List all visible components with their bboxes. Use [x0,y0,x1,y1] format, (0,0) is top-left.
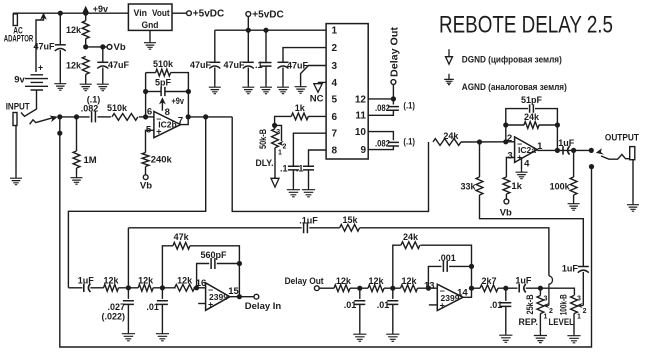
ground 12k lower [80,81,92,91]
label .1 pin8 [296,163,304,173]
wire divider to Vb terminal [86,46,108,48]
svg-text:8: 8 [165,107,170,118]
label 24k input [443,131,459,141]
label 33k [460,181,476,191]
label .01 Rb [377,300,390,310]
capacitor 47uF rail B [243,62,254,68]
capacitor .1 rail [261,63,272,67]
wire rail to 47uF1 [59,13,61,45]
svg-text:.1: .1 [280,163,288,173]
svg-text:.001: .001 [438,253,456,263]
DLY pot terminal 3 [276,129,280,136]
svg-text:12k: 12k [177,276,193,286]
label 47uF4 [223,60,245,70]
wire delayout to 12k [319,287,334,289]
label .1 pin7 [280,163,288,173]
capacitor .1 pin7 [288,166,299,170]
svg-text:1k: 1k [511,181,522,192]
ground pin4 DGND [314,83,322,93]
label (.022) [101,312,125,322]
svg-text:2: 2 [583,308,587,315]
svg-text:3: 3 [543,295,547,302]
IC2b pin 8 [165,107,170,118]
svg-text:25k-B: 25k-B [525,294,535,314]
svg-text:1uF: 1uF [78,276,95,286]
label 1uF output [558,138,575,148]
svg-text:DLY.: DLY. [256,158,274,169]
ground cap pin7 [287,187,300,197]
svg-text:Delay Out: Delay Out [388,26,400,77]
svg-text:IC2b: IC2b [158,119,176,129]
svg-text:+9v: +9v [93,4,108,14]
label 1uF delay in [78,276,95,286]
svg-text:1uF: 1uF [562,264,579,274]
label 1k delay [295,103,306,113]
wire pin4 stub [318,81,326,83]
svg-text:2k7: 2k7 [481,276,496,286]
label .01 L [146,302,159,312]
IC2b minus sign [156,113,161,123]
svg-text:+9v: +9v [172,96,185,106]
ground 47uF5 [277,84,289,94]
svg-text:24k: 24k [524,112,540,122]
wire 2399R plus stub [429,304,437,306]
wire cap082b to pin9 [368,146,393,150]
svg-text:2: 2 [332,43,338,54]
wire j2 up to 47k [162,246,173,288]
wire 5pF left [146,91,162,93]
ground cap .1 [260,84,272,94]
svg-text:(.1): (.1) [403,136,415,146]
capacitor .01 Rc [500,303,511,307]
svg-text:6: 6 [332,112,338,123]
junction 100k tap [571,148,576,153]
wire 12k1 to Vb node [85,39,87,47]
svg-text:.01: .01 [146,302,159,312]
label +5vDC in [252,10,283,21]
ground .027 [122,331,135,341]
wire battery minus to jack ring [21,90,37,116]
wire 560pF right [217,263,240,265]
svg-text:6: 6 [147,107,152,118]
capacitor 47uF rail A [209,62,220,68]
wire 2399L plus stub [198,303,205,305]
LEVEL pot terminal 1 [577,313,581,320]
svg-text:.1: .1 [296,163,304,173]
svg-text:Vout: Vout [152,8,170,19]
wire 33k to level wiper [480,195,584,266]
terminal +5vDC in [246,12,251,17]
capacitor .082 input [92,111,96,122]
svg-text:5pF: 5pF [155,77,172,87]
svg-text:51pF: 51pF [521,95,543,105]
wire 12kL2 to j2 [153,287,175,289]
resistor 510k series [112,114,138,121]
wire IC2a out [537,149,592,151]
capacitor 47uF pin2 [278,62,289,68]
IC2b pin 5 [146,124,152,135]
wire IC2a fb left [506,109,528,142]
terminal +5vDC out [187,11,192,16]
wire 01Rb gnd [392,304,394,331]
svg-text:.082: .082 [375,139,390,149]
label .082 b [375,139,390,149]
label +9v top [93,4,108,14]
svg-text:24k: 24k [443,131,459,141]
svg-text:REP.: REP. [518,317,538,328]
wire fb line left [128,227,301,229]
junction rail 47uF1 [58,11,63,16]
terminal Delay Out top [391,80,396,85]
svg-text:3: 3 [577,295,581,302]
svg-text:2: 2 [283,144,287,151]
junction 1M tap [74,114,79,119]
ground .01 Ra [353,331,366,341]
svg-text:510k: 510k [107,103,128,113]
svg-text:AGND (аналоговая земля): AGND (аналоговая земля) [462,82,567,93]
resistor 47k [173,242,190,249]
wire fb left vertical [145,73,147,117]
battery B1 9v [25,75,48,90]
wire 12kL3 to pin16 [194,287,206,289]
wire out to 2k7 [472,287,481,289]
IC pin number 9 [360,145,366,156]
wire rail to 12k1 [85,13,87,21]
2399L pin 16 [196,278,207,289]
ground DLY pot DGND [271,177,279,187]
label 5pF [155,77,172,87]
resistor 12k R2 [368,285,384,292]
wire fb line mid [309,227,339,229]
wire j2 to 01 [161,288,163,299]
junction IC2a inv [503,139,508,144]
svg-text:240k: 240k [151,155,173,166]
junction pin13 node [426,286,431,291]
label 12k lower [66,61,82,71]
label INPUT [6,101,30,111]
title REBOTE DELAY 2.5 [439,12,613,39]
wire 12kR2 to j2R [384,287,401,289]
arrow +9v at divider [82,6,89,14]
IC pin number 10 [355,127,367,138]
label 47k [174,232,190,242]
wire dry send down [68,117,205,288]
svg-text:.082: .082 [375,103,390,113]
wire 560pF left [197,264,210,288]
label NC pin5 [310,94,324,105]
label DLY. [256,158,274,169]
svg-text:33k: 33k [460,181,476,191]
junction input bypass tap [57,131,62,136]
svg-text:10: 10 [355,127,367,138]
svg-text:12k: 12k [336,276,352,286]
2399L pin 15 [228,286,239,297]
regulator U2 78L05 box [128,4,172,30]
junction Vb 47uF2 [100,44,105,49]
ground 100k [568,201,580,211]
capacitor .001 [443,261,447,272]
label .082 a [375,103,390,113]
svg-text:9: 9 [360,145,366,156]
label Vb source [114,42,126,53]
terminal Vb source [107,45,112,50]
IC pin number 8 [332,145,338,156]
wire 24k to node [461,141,506,143]
IC pin number 1 [332,26,338,37]
label Delay Out vertical [388,26,400,77]
wire 47uF3 drop [214,30,216,62]
label cap .1 [255,60,263,70]
svg-text:REBOTE DELAY 2.5: REBOTE DELAY 2.5 [439,12,613,39]
wire 12kR1 to j1R [350,287,368,289]
2399R pin 14 [457,288,468,299]
potentiometer DLY 50k-B [272,129,284,148]
junction bypass contact [589,164,594,169]
wire 47uF4 gnd [247,68,249,85]
legend AGND text [462,82,567,93]
wire 100k gnd [573,195,575,201]
svg-text:8: 8 [332,145,338,156]
svg-text:1: 1 [278,150,282,157]
regulator pin Vout [152,8,170,19]
ground 47uF3 [209,84,221,94]
capacitor 47uF Vb [97,62,108,68]
label +5vDC out [193,9,224,20]
ground output jack [627,202,639,212]
label 47uF5 [287,60,309,70]
resistor 1k delay [291,113,308,120]
IC2a minus sign [517,139,522,149]
wire 100k drop [573,150,575,177]
wire hop to REP wiper [549,276,553,306]
label 12k R2 [368,276,384,286]
wire pin8 to cap [309,150,327,166]
wire j1 up to fb line [127,228,129,288]
svg-text:Vb: Vb [140,181,152,192]
label REP. [518,317,538,328]
regulator pin Vin [134,8,148,19]
IC pin number 2 [332,43,338,54]
svg-text:12: 12 [355,94,367,105]
REP pot terminal 2 [549,308,553,315]
svg-text:560pF: 560pF [200,250,227,260]
wire input node to cap082in [60,116,90,118]
junction REP top [538,286,543,291]
resistor 24k feedback [524,122,539,129]
wire 1M drop [76,117,78,151]
label LEVEL [548,317,574,328]
resistor 510k feedback [156,69,171,76]
resistor 12k L1 [104,284,119,291]
resistor 1M [73,151,80,168]
2399R pin 13 [424,280,435,291]
legend AGND symbol [444,74,454,85]
svg-text:.027: .027 [107,302,125,312]
label 47uF1 [33,42,55,52]
wire cap pin8 gnd [308,170,310,187]
ground 1M [71,175,83,185]
output jack J2 [630,147,635,160]
AC adaptor plug [13,14,17,26]
battery plus sign [38,63,43,73]
wire j1 to 027 [127,288,129,299]
resistor 24k input [433,139,461,146]
wire 12kR3 to pin13 [418,287,438,289]
svg-text:47k: 47k [174,232,190,242]
svg-text:12k: 12k [138,276,154,286]
wire output jack gnd [632,160,634,202]
label 47uF2 [108,60,130,70]
svg-text:12k: 12k [66,61,82,71]
resistor 12k L2 [138,284,153,291]
svg-text:NC: NC [310,94,324,105]
wire j2R to 01b [392,288,394,299]
resistor 33k [476,177,483,195]
input jack J1 [13,113,17,126]
label 510k series [107,103,128,113]
REP pot terminal 3 [543,295,547,302]
ground .01 L [156,331,169,341]
label Delay Out bottom [285,276,325,287]
svg-text:2: 2 [549,308,553,315]
ground regulator [144,40,156,50]
resistor 12k lower [82,56,89,74]
wire 33k drop [479,142,481,177]
ground 47uF1 [54,81,66,91]
wire input jack sleeve to ground [15,126,17,176]
svg-text:9v: 9v [14,75,25,86]
IC2a pin 2 [507,133,512,144]
svg-text:12k: 12k [401,276,417,286]
wire cap pin7 gnd [292,170,294,187]
label 12k L2 [138,276,154,286]
capacitor 47uF input filter [55,45,66,51]
label Vb IC2a [500,208,512,219]
label (.1) input [87,95,101,105]
ground .01 Rb [386,331,399,341]
IC pin number 4 [332,78,338,89]
svg-text:47uF: 47uF [223,60,245,70]
regulator pin Gnd [142,20,159,31]
label +9v IC2b [172,96,185,106]
wire wet path to 24k [232,117,428,211]
wire 1uF to 12k [90,287,103,289]
ground 47uF4 [242,84,254,94]
wire 01Ra gnd [359,304,361,331]
svg-text:4: 4 [332,78,338,89]
svg-text:12k: 12k [103,276,119,286]
label 25k-B [525,294,535,314]
resistor 12k R1 [334,285,350,292]
2399L minus [208,284,213,294]
arrow +9v IC2b pin8 [159,97,166,111]
capacitor .01 Rb [387,301,398,305]
wire 47uF5 to pin2 [283,48,326,63]
label 15k [342,215,358,225]
op-amp 2399 R [437,284,463,310]
svg-text:.082: .082 [81,103,99,113]
IC pin number 12 [355,94,367,105]
label 240k [151,155,173,166]
potentiometer REP 25k-B [537,296,549,314]
capacitor .1 pin8 [303,166,314,170]
DLY pot terminal 2 [283,144,287,151]
resistor 240k [142,153,149,167]
svg-text:OUTPUT: OUTPUT [605,133,639,144]
wire IC2a plus to 1k [506,158,514,178]
label 2k7 [481,276,496,286]
wire +5vDC to rail [247,16,249,30]
label Delay In [245,301,282,312]
wire j2R up to 24k [393,245,401,288]
wire 5pF right [165,91,189,93]
wire 240k to Vb [145,167,147,175]
capacitor 51pF [530,104,534,112]
svg-text:DGND (цифровая земля): DGND (цифровая земля) [462,55,562,66]
wire DLY pot to dgnd [274,148,276,179]
label .001 [438,253,456,263]
label (.1) b [403,136,415,146]
wire 510k to IC2b minus [139,116,154,118]
junction L1 [126,285,131,290]
junction rail 12k [83,11,88,16]
wire 47uF1 to ground [59,50,61,81]
wire 1k to pot top [275,116,292,128]
capacitor 1uF repeat [519,284,526,292]
label 560pF [200,250,227,260]
junction R2 [390,286,395,291]
junction R3 [503,286,508,291]
wire pin1 rail [215,29,326,31]
capacitor .027 [123,301,134,305]
resistor 15k [340,224,360,231]
label 51pF [521,95,543,105]
wire IC2b plus to 240k [146,130,154,152]
potentiometer LEVEL 100k-B [571,296,584,314]
svg-text:Vb: Vb [500,208,512,219]
junction input node [57,114,62,119]
wire cap082in to 510k [97,116,111,118]
2399R plus [440,300,445,310]
wire cap .1 drop [265,30,267,62]
wire 027 gnd [127,304,129,330]
wire 47uF3 gnd [214,68,216,85]
arrow battery to +9v [40,13,47,20]
capacitor .01 L [157,301,168,305]
wire 2399L out [230,296,254,298]
svg-text:2399: 2399 [209,292,228,302]
label 50k-B [258,129,268,149]
wire 001 left [428,266,441,288]
svg-text:12k: 12k [66,25,82,35]
capacitor 5pF [161,87,165,96]
label 1k vb [511,181,522,192]
svg-text:ADAPTOR: ADAPTOR [4,34,34,44]
svg-text:.01: .01 [344,300,357,310]
svg-text:1uF: 1uF [515,275,532,285]
IC2b pin 7 [178,116,183,127]
label .082 input [81,103,99,113]
wire 24kloop to outv [420,245,471,288]
terminal Delay In [254,294,259,299]
terminal Vb IC2a [504,199,509,204]
svg-text:15k: 15k [342,215,358,225]
capacitor 1uF output [563,146,570,154]
junction 33k tap [477,139,482,144]
label 47uF3 [190,60,212,70]
wire IC2b out east [188,116,232,118]
LEVEL pot terminal 2 [583,308,587,315]
